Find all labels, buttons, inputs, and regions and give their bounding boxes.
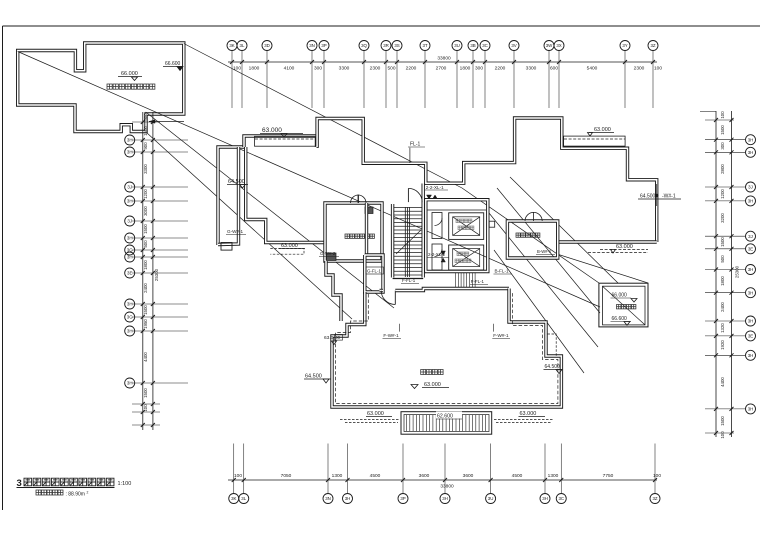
svg-text:100: 100 (654, 66, 662, 72)
svg-text:3E: 3E (748, 334, 753, 339)
svg-text:3H: 3H (127, 150, 133, 155)
fan room box outer (599, 283, 648, 327)
svg-text:3R: 3R (383, 43, 389, 48)
title underline (17, 487, 115, 489)
svg-text:1:100: 1:100 (118, 481, 132, 487)
title 3dong wuding ceng jipaishui pingmiantu (24, 478, 114, 486)
svg-text:63.000: 63.000 (367, 411, 384, 417)
diagonal leader F (557, 254, 648, 283)
svg-text:500: 500 (720, 255, 725, 263)
column block room NE (365, 207, 373, 214)
top dimension numbers (233, 66, 662, 72)
elevator shaft upper (449, 213, 484, 240)
svg-text:3H: 3H (748, 137, 754, 142)
border frame left (2, 26, 4, 510)
diagonal leader E2 (497, 188, 600, 313)
svg-text:3H: 3H (748, 267, 754, 272)
svg-text:3J: 3J (127, 185, 132, 190)
svg-text:1300: 1300 (332, 473, 343, 479)
svg-text:3600: 3600 (419, 473, 430, 479)
svg-text:1500: 1500 (143, 126, 148, 136)
text huoke dianti (458, 226, 474, 230)
left dimension numbers (143, 113, 148, 412)
left tick slashes (141, 120, 155, 427)
svg-text:1500: 1500 (720, 125, 725, 135)
svg-text:4400: 4400 (143, 352, 148, 362)
elevator machine room block (426, 200, 488, 272)
right bubbles (746, 135, 756, 414)
svg-text:1320: 1320 (720, 323, 725, 333)
svg-text:2200: 2200 (495, 66, 506, 72)
stair break line (396, 230, 421, 254)
svg-text:F-W#-1: F-W#-1 (383, 333, 399, 338)
right tick slashes (714, 118, 734, 435)
valve marks 2 (441, 251, 445, 255)
louvre box inner (404, 415, 489, 432)
svg-text:F-FL-1: F-FL-1 (402, 278, 416, 283)
svg-text:3U: 3U (488, 496, 494, 501)
terrace outline (332, 289, 561, 408)
svg-text:900: 900 (143, 142, 148, 150)
svg-text:1500: 1500 (720, 237, 725, 247)
svg-text:64.500: 64.500 (305, 374, 322, 380)
bottom dimension chain (228, 479, 657, 481)
svg-text:3W: 3W (546, 43, 553, 48)
svg-text:3H: 3H (748, 199, 754, 204)
svg-text:63.000: 63.000 (424, 382, 441, 388)
svg-text:100: 100 (234, 473, 242, 479)
svg-text:1300: 1300 (548, 473, 559, 479)
svg-text:5400: 5400 (587, 66, 598, 72)
svg-text:3C: 3C (482, 43, 488, 48)
stair treads (394, 208, 422, 276)
svg-text:4400: 4400 (720, 377, 725, 387)
bottom dimension numbers (234, 473, 661, 479)
dashed box terrace right step (548, 334, 557, 356)
stair bottom wall (393, 278, 424, 280)
svg-text:3P: 3P (321, 43, 326, 48)
svg-text:3B: 3B (470, 43, 475, 48)
door arc hoist L (525, 212, 534, 221)
door arc room left leaf (351, 195, 359, 203)
bottom bubbles (229, 494, 660, 504)
svg-text:3H: 3H (127, 302, 133, 307)
valve marks (427, 195, 432, 199)
fan room box inner (603, 286, 646, 325)
door leaf terrace (394, 291, 396, 305)
diagonal leader E1 (510, 177, 618, 283)
svg-text:3C: 3C (558, 496, 564, 501)
diagonal leader E3 (489, 213, 598, 347)
svg-text:2: 2 (87, 491, 89, 495)
svg-text:3Q: 3Q (361, 43, 367, 48)
svg-text:1200: 1200 (720, 189, 725, 199)
svg-text:3Z: 3Z (650, 43, 655, 48)
svg-text:2800: 2800 (720, 164, 725, 174)
svg-text:300: 300 (314, 66, 322, 72)
text dianti jifang (456, 219, 472, 223)
svg-text:100: 100 (720, 111, 725, 119)
hatch below elevator block (456, 273, 476, 288)
svg-text:3D: 3D (264, 43, 270, 48)
diagonal leader C (147, 133, 352, 319)
svg-text:3H: 3H (127, 199, 133, 204)
svg-text:63.000: 63.000 (281, 243, 298, 249)
svg-text:4500: 4500 (512, 473, 523, 479)
svg-text:2300: 2300 (370, 66, 381, 72)
text qibiji jifang (516, 233, 540, 237)
svg-text:3Z: 3Z (652, 496, 657, 501)
svg-text:7050: 7050 (281, 473, 292, 479)
svg-text:1920: 1920 (720, 340, 725, 350)
svg-text:F-W#-1: F-W#-1 (493, 333, 509, 338)
svg-text:500: 500 (387, 66, 395, 72)
bottom grid lines (234, 444, 655, 494)
svg-text:G-W#-1: G-W#-1 (227, 229, 244, 234)
wall stairs-terrace (395, 289, 509, 291)
small box right of block (489, 221, 495, 227)
machine-room roof outline (18, 43, 184, 132)
svg-text:4100: 4100 (284, 66, 295, 72)
left dimension chain inner (142, 112, 144, 430)
shaft G-FL-1 (365, 255, 383, 292)
svg-text:62.600: 62.600 (437, 414, 453, 420)
room qibiji jifang (507, 221, 557, 258)
svg-text:1200: 1200 (143, 189, 148, 199)
stair rail L (404, 207, 406, 277)
left wing bottom box (221, 243, 232, 251)
svg-text:25300: 25300 (154, 268, 159, 281)
wall left-middle steps (246, 147, 326, 243)
svg-text:3T: 3T (422, 43, 427, 48)
stair well right wall (422, 184, 425, 278)
elevator lobby box lower (432, 244, 442, 270)
wall left wing R (218, 147, 239, 245)
louvre box outer (401, 412, 492, 435)
svg-text:3U: 3U (454, 43, 460, 48)
svg-text:3K: 3K (231, 496, 236, 501)
svg-text:63.000: 63.000 (616, 244, 633, 250)
svg-text:3300: 3300 (339, 66, 350, 72)
text guanguang dianti (455, 259, 471, 263)
door arc stair top (408, 188, 422, 202)
svg-text:3Y: 3Y (622, 43, 627, 48)
svg-text:3300: 3300 (143, 164, 148, 174)
svg-text:3H: 3H (748, 290, 754, 295)
svg-text:3N: 3N (325, 496, 331, 501)
svg-text:00: 00 (335, 335, 341, 340)
top ticks (230, 60, 655, 64)
stair rail R (409, 207, 411, 277)
door arc terrace (381, 291, 395, 305)
svg-text:3H: 3H (748, 407, 754, 412)
right dimension numbers (720, 111, 725, 439)
svg-text:3N: 3N (309, 43, 315, 48)
top dimension chain (228, 61, 657, 63)
text fengji fangding (617, 305, 636, 309)
right ticks (700, 111, 745, 433)
svg-text:3G: 3G (127, 315, 133, 320)
svg-text:3L: 3L (240, 43, 245, 48)
svg-text:1500: 1500 (143, 305, 148, 315)
svg-text:100: 100 (143, 404, 148, 412)
svg-text:2-2-XL-1: 2-2-XL-1 (426, 185, 444, 190)
diagonal leader E4 (494, 250, 584, 373)
svg-text:1500: 1500 (143, 388, 148, 398)
svg-text:100: 100 (653, 473, 661, 479)
level mark terrace (411, 385, 418, 389)
right dimension chain inner (715, 111, 717, 437)
dash box 63.000 mid-left (270, 249, 304, 255)
svg-text:63.0: 63.0 (324, 335, 334, 341)
svg-text:B-W#-1: B-W#-1 (537, 249, 552, 254)
level mark 66.600 (177, 67, 183, 71)
terrace inner dashed line (336, 292, 558, 404)
pipe line right (656, 184, 658, 206)
leader arrow (149, 121, 184, 123)
svg-text:G-FL-1: G-FL-1 (367, 269, 381, 274)
svg-text:3J: 3J (127, 219, 132, 224)
top bubbles (227, 41, 658, 51)
subtitle ceng jianzhu mianji (36, 490, 63, 495)
elevator block inner top line (428, 209, 487, 211)
left ticks (132, 122, 188, 425)
fan room diagonal (603, 286, 646, 325)
svg-text:7750: 7750 (603, 473, 614, 479)
svg-text:-W#-1: -W#-1 (662, 194, 676, 200)
svg-text:3600: 3600 (463, 473, 474, 479)
steps left to terrace (326, 261, 341, 321)
svg-text:3E: 3E (127, 271, 132, 276)
svg-text:2700: 2700 (436, 66, 447, 72)
svg-text:B-FL-1: B-FL-1 (495, 269, 509, 274)
top grid lines (232, 51, 653, 109)
wall stair hall left (365, 203, 368, 255)
elevator shaft lower (449, 245, 484, 270)
door arc hoist R (534, 212, 543, 221)
svg-text:3K: 3K (229, 43, 234, 48)
dashed parapet bottom-left (340, 419, 400, 421)
svg-text:100: 100 (233, 66, 241, 72)
border frame top (3, 25, 760, 27)
svg-text:3H: 3H (542, 496, 548, 501)
elev door arc upper (435, 218, 443, 226)
diagonal leader B1 (184, 44, 462, 189)
svg-text:3S: 3S (394, 43, 399, 48)
svg-text:3P: 3P (400, 496, 405, 501)
svg-text:3H: 3H (748, 353, 754, 358)
svg-text:: 88.90m: : 88.90m (66, 492, 85, 498)
svg-text:1800: 1800 (720, 276, 725, 286)
svg-text:300: 300 (475, 66, 483, 72)
parapet box 63.000 upper-right (564, 136, 626, 146)
svg-text:2400: 2400 (720, 302, 725, 312)
svg-text:3H: 3H (442, 496, 448, 501)
svg-text:300: 300 (720, 142, 725, 150)
bottom ticks (232, 478, 657, 482)
svg-text:66.000: 66.000 (612, 293, 628, 299)
svg-text:64.500: 64.500 (640, 194, 656, 200)
level mark 66.000 (132, 77, 138, 81)
svg-text:3000: 3000 (143, 206, 148, 216)
diagonal leader A (18, 52, 600, 308)
svg-text:2200: 2200 (406, 66, 417, 72)
svg-text:3X: 3X (556, 43, 561, 48)
svg-text:66.000: 66.000 (121, 71, 138, 77)
svg-text:3200: 3200 (720, 213, 725, 223)
svg-text:F-FL-1: F-FL-1 (471, 279, 485, 284)
svg-text:500: 500 (143, 113, 148, 121)
svg-text:63.000: 63.000 (594, 127, 611, 133)
wall door jamb (380, 289, 384, 292)
right dimension chain outer (731, 111, 733, 437)
left dimension chain outer (152, 112, 154, 430)
svg-text:4500: 4500 (370, 473, 381, 479)
text shangren wumian (421, 370, 443, 375)
svg-text:3H: 3H (748, 150, 754, 155)
svg-text:100: 100 (720, 431, 725, 439)
svg-text:1800: 1800 (460, 66, 471, 72)
svg-text:1800: 1800 (249, 66, 260, 72)
svg-text:2300: 2300 (634, 66, 645, 72)
svg-text:3H: 3H (345, 496, 351, 501)
svg-text:3H: 3H (748, 319, 754, 324)
svg-text:33800: 33800 (440, 484, 454, 490)
text dianti jifang fengjing fangding (107, 84, 155, 89)
svg-text:3J: 3J (748, 185, 753, 190)
diagonal leader D (146, 112, 394, 308)
svg-text:1500: 1500 (720, 416, 725, 426)
svg-text:600: 600 (550, 66, 558, 72)
column block room SW (327, 253, 337, 261)
svg-text:33800: 33800 (437, 56, 451, 62)
svg-text:1950: 1950 (143, 319, 148, 329)
text jiaya songfeng jifang (345, 234, 374, 238)
svg-text:3J: 3J (748, 234, 753, 239)
svg-text:3H: 3H (127, 138, 133, 143)
svg-text:2400: 2400 (143, 283, 148, 293)
svg-text:3H: 3H (127, 381, 133, 386)
wall left wing L (218, 147, 244, 245)
elev door arc lower (435, 249, 443, 257)
door arc room right leaf (358, 195, 366, 203)
svg-text:3H: 3H (127, 236, 133, 241)
parapet box 63.000 upper-left (255, 136, 317, 146)
main roof outline top (317, 118, 657, 242)
room jiaya songfeng jifang (325, 203, 382, 261)
dashed parapet bottom-right (494, 419, 554, 421)
svg-text:3E: 3E (748, 246, 753, 251)
svg-text:25300: 25300 (735, 265, 740, 278)
shaft X lower (453, 249, 480, 267)
elevator lobby box upper (432, 213, 442, 239)
svg-text:3L: 3L (241, 496, 246, 501)
svg-text:3H: 3H (127, 255, 133, 260)
svg-text:3V: 3V (511, 43, 516, 48)
svg-text:63.000: 63.000 (262, 127, 282, 134)
shaft X upper (453, 217, 480, 236)
svg-text:63.000: 63.000 (520, 411, 537, 417)
text shuibeng (457, 252, 469, 256)
svg-text:1500: 1500 (143, 224, 148, 234)
wall right bottom (558, 240, 657, 243)
svg-text:1800: 1800 (143, 260, 148, 270)
svg-text:3300: 3300 (526, 66, 537, 72)
diagonal leader B2 (462, 188, 599, 283)
parapet step upper-left (244, 136, 317, 147)
louvre hatch (407, 415, 486, 431)
svg-text:FL-1: FL-1 (410, 142, 421, 148)
left bubbles (125, 135, 135, 388)
svg-text:G-W#-2: G-W#-2 (320, 251, 336, 256)
stair well left wall (391, 204, 394, 278)
svg-text:3H: 3H (127, 329, 133, 334)
svg-text:500: 500 (143, 240, 148, 248)
